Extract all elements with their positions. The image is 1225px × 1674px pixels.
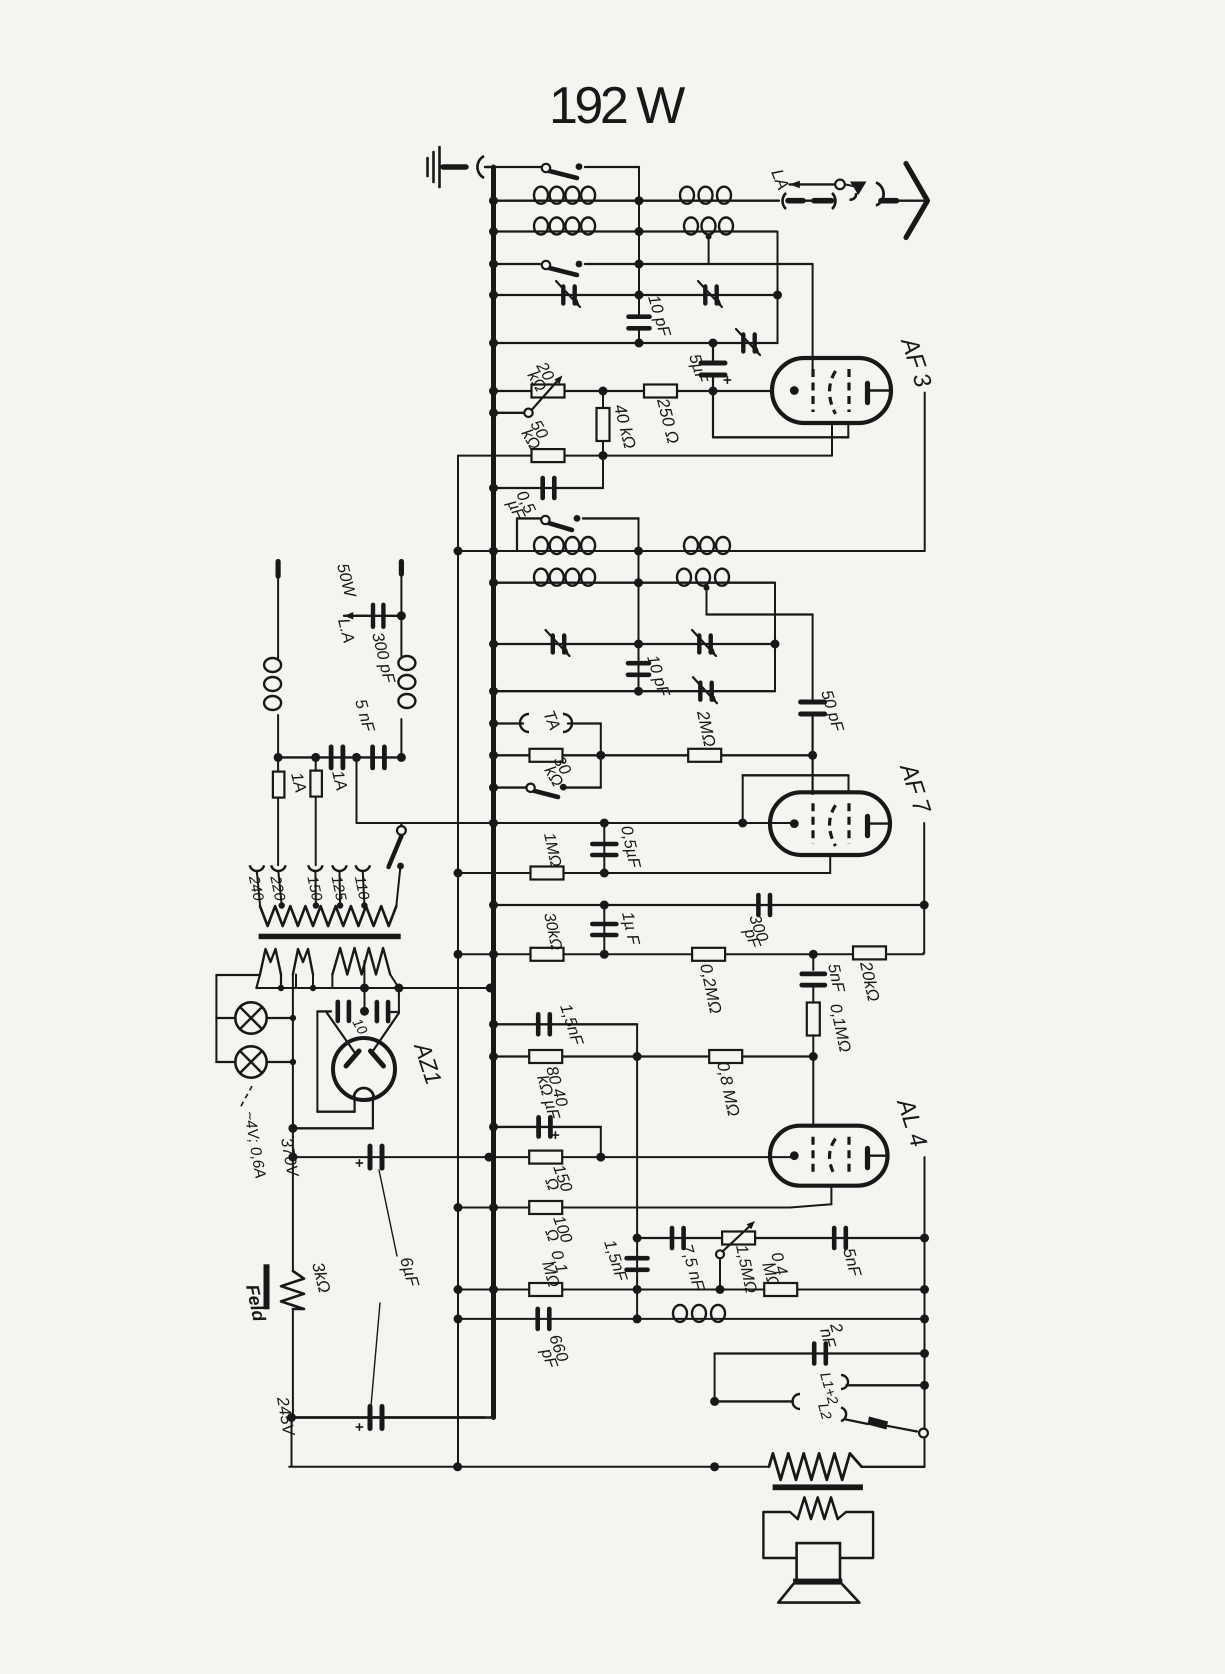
svg-text:+: + xyxy=(723,372,732,389)
svg-text:+: + xyxy=(355,1155,364,1172)
svg-text:192 W: 192 W xyxy=(549,77,685,135)
svg-text:+: + xyxy=(355,1419,364,1436)
svg-text:+: + xyxy=(551,1127,560,1144)
